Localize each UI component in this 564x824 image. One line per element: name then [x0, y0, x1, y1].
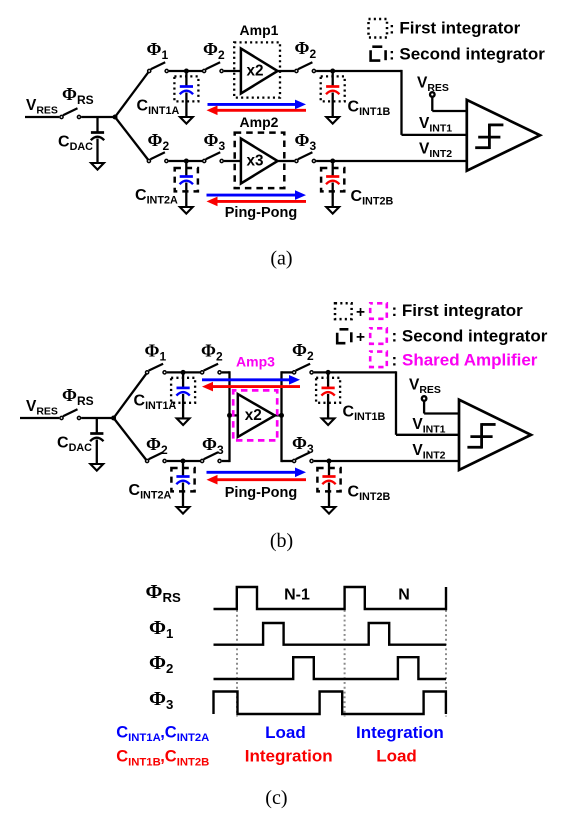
svg-text:x2: x2: [245, 407, 262, 424]
svg-text:(b): (b): [270, 530, 293, 552]
svg-text:Ping-Pong: Ping-Pong: [225, 205, 298, 221]
svg-text:+: +: [356, 304, 365, 321]
svg-text:N: N: [398, 587, 410, 604]
svg-text:Amp1: Amp1: [240, 22, 279, 38]
svg-text:Shared Amplifier: Shared Amplifier: [402, 351, 538, 370]
svg-text:Load: Load: [265, 723, 306, 742]
svg-text::: :: [392, 351, 398, 370]
svg-text:(c): (c): [265, 787, 287, 809]
svg-text:Integration: Integration: [245, 747, 333, 766]
svg-text:: First integrator: : First integrator: [389, 19, 521, 38]
svg-text:: Second integrator: : Second integrator: [392, 327, 548, 346]
svg-text:Amp2: Amp2: [240, 114, 279, 130]
svg-text:x3: x3: [246, 153, 263, 170]
svg-text:(a): (a): [270, 248, 292, 270]
svg-text:: First integrator: : First integrator: [392, 301, 524, 320]
svg-text:Ping-Pong: Ping-Pong: [225, 485, 298, 501]
svg-text:Load: Load: [376, 747, 417, 766]
svg-text:+: +: [356, 329, 365, 346]
svg-text:Integration: Integration: [356, 723, 444, 742]
svg-text:Amp3: Amp3: [236, 354, 275, 370]
svg-text:x2: x2: [246, 63, 263, 80]
svg-text:: Second integrator: : Second integrator: [389, 45, 545, 64]
svg-text:N-1: N-1: [284, 587, 310, 604]
